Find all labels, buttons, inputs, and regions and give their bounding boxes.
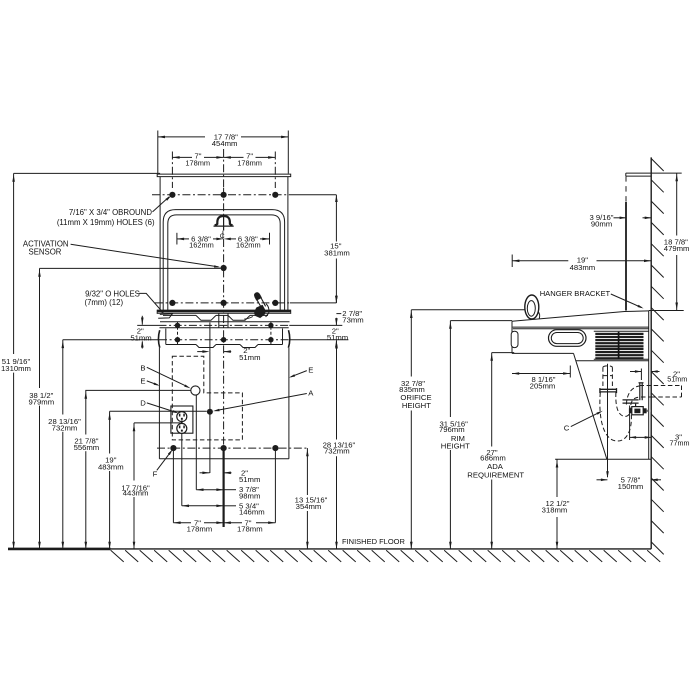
dim line 38 1/2 upper [39,268,41,388]
cabinet left bulge [158,330,159,348]
arrow 27 ADA bottom [490,542,493,549]
svg-text:51mm: 51mm [327,333,348,342]
left 2in lower seg [141,342,143,349]
arrow 8 1/16 r [563,372,570,375]
arrow 28 13/16 bottom [62,542,65,549]
hanger leader [611,294,642,308]
dim 13 15/16 lower [306,511,308,549]
arrow 31 5/16 top [449,322,452,329]
dim line 7in right a [224,156,244,158]
hole 325 right [268,323,273,328]
valve stem [635,404,637,407]
svg-text:205mm: 205mm [530,381,556,390]
obround leader [153,197,170,212]
ext bottom-left hole down [172,448,174,523]
dim line 38 1/2 lower [39,406,41,549]
cabinet bottom edge [159,458,289,460]
dim 12 1/2 upper [556,459,558,497]
arrow 12 1/2 bottom [556,542,559,549]
dim line 15 upper [335,195,337,242]
arrow 5 3/4 l [182,505,189,508]
short centerline 271 [270,322,272,344]
obround hole top-right [272,192,278,198]
dim line 17 7/8 left segment [158,136,205,138]
orifice height line [411,309,525,311]
svg-text:686mm: 686mm [480,453,506,462]
svg-text:479mm: 479mm [664,244,690,253]
dim line 15 lower [335,259,337,303]
cabinet right edge [288,348,290,459]
dim 18 7/8 lower [676,255,678,311]
valve wing left [629,408,632,413]
arrow 6 3/8 right [262,238,269,241]
svg-text:98mm: 98mm [239,491,260,500]
dim 28 13/16 r lower [336,456,338,549]
svg-text:979mm: 979mm [28,397,54,406]
ext 19in [511,255,513,268]
arrow 17 7/16 top [133,424,136,431]
dim 31 5/16 upper [449,321,451,417]
side bottom diagonal [574,353,607,459]
drain line upper [209,323,211,352]
slip nut left [599,388,601,393]
basin detail left [158,314,172,319]
arrow 17 7/8 right [281,136,288,139]
svg-text:90mm: 90mm [591,219,612,228]
dim line 21 7/8 upper [85,390,87,434]
arrow 7in center left [216,156,223,159]
under-hood line [513,326,649,328]
dim 3 7/8 tail [224,489,236,491]
arrow 5 7/8 r [651,479,658,482]
dim 27 ADA upper [491,353,493,447]
leader A [216,394,307,411]
obround hole top-center [221,192,227,198]
rim line ext left [137,324,158,326]
activation sensor dot [221,265,227,271]
connector 19 to node A [110,410,207,412]
arrow 7b far left [173,521,180,524]
sensor leader arrow [214,265,221,267]
arrow 3in r [645,436,652,439]
bottom connector line [555,458,651,460]
arrow 19in left [512,260,519,263]
arrow 13 15/16 bottom [306,542,309,549]
cabinet apron c [258,344,283,346]
left 2in arrow down [141,318,144,325]
arrow 38 1/2 bottom [38,542,41,549]
tailpiece top cap [603,366,613,367]
arrow 3 9/16 right [645,217,652,220]
svg-text:162mm: 162mm [189,241,214,250]
dim 6 3/8 r b [260,238,270,240]
row 340 ext left [63,339,159,341]
dim 2 bottom left tail [200,472,210,474]
arrow leader F [168,449,173,455]
upper 2in right arrow [224,350,231,353]
svg-text:51mm: 51mm [239,353,260,362]
side recess outer [549,330,587,347]
svg-text:483mm: 483mm [98,463,124,472]
connector 21 7/8 to circle B [85,389,190,391]
circle B [191,386,200,395]
arrow 27 ADA top [490,354,493,361]
svg-text:443mm: 443mm [123,489,149,498]
node A dot [207,409,213,415]
basin rim top [157,310,291,313]
obround leader arrow [166,196,172,201]
ext 2in trap [640,369,642,381]
dim line 19 lower [109,471,111,549]
stub cap [639,382,644,384]
grille top body line [594,330,649,332]
ada line [492,352,515,354]
dim line 28 13/16 upper [62,340,64,415]
left 2in upper seg [141,316,143,325]
outlet circle [177,412,187,422]
front detail [511,331,518,347]
upper 2in left tail [197,351,204,353]
bubbler base curve [538,312,540,319]
ext 3in [629,406,631,441]
plate left edge bold (hanger bar) [625,202,627,311]
arrow 19in right [644,260,651,263]
bubbler dome [215,216,233,225]
ext 8 1/16 [569,366,571,378]
svg-text:162mm: 162mm [236,241,261,250]
svg-text:FINISHED FLOOR: FINISHED FLOOR [342,537,406,546]
slip nut bottom [600,391,617,393]
arrow 38 1/2 top [38,270,41,277]
basin notch right [228,315,250,320]
wall hatching [651,159,664,172]
basin rim lower line [158,312,291,314]
arrow 17 7/16 bottom [133,542,136,549]
cabinet left edge [158,348,160,459]
arrow 5 3/4 r [216,505,223,508]
svg-text:150mm: 150mm [618,482,644,491]
arrow 8 1/16 l [512,372,519,375]
arrow 15 bottom [335,296,338,303]
arrow 13 15/16 top [306,449,309,456]
waste out top [640,385,682,387]
arrow 18 7/8 top [675,174,678,181]
left 2in arrow up [141,340,144,347]
dim 5 3/4 tail [224,505,236,507]
tailpiece joint [603,375,613,377]
apron notch left [196,345,216,348]
svg-text:HEIGHT: HEIGHT [441,441,470,450]
ext 6 3/8 right [269,233,271,245]
dim 2-7/8 upper seg [335,296,337,303]
dim 3 9/16 right seg [643,217,652,219]
arrow down at rim line right [335,318,338,325]
trap inner curve [616,392,631,416]
slip nut right [616,388,618,393]
svg-text:51mm: 51mm [239,475,260,484]
dim 12 1/2 lower [556,517,558,549]
dim 2 bottom right tail [224,472,232,474]
svg-text:796mm: 796mm [439,425,465,434]
arrow 15 top [335,195,338,202]
arrow 6 3/8 left [177,238,184,241]
svg-text:7/16" X 3/4" OBROUND: 7/16" X 3/4" OBROUND [69,208,152,217]
dim 32 7/8 lower [410,411,412,549]
arrow leader E right [289,374,295,377]
tailpiece right [611,367,613,389]
hole row centerline mid [155,302,290,304]
grille bottom line [594,358,649,360]
arrow 2in trap r [651,370,658,373]
dim 31 5/16 lower [449,450,451,549]
center bold line below cabinet [223,448,225,527]
plate top line2 [626,175,651,177]
arrow 3 7/8 r [216,488,223,491]
dim line 7in left b [204,156,224,158]
dim line 17 7/16 upper [133,423,135,481]
arrow 32 7/8 bottom [410,542,413,549]
hole row solid ext top [290,194,336,196]
arrow 32 7/8 top [410,311,413,318]
drain line lower [209,352,211,473]
outlet slots [179,426,181,429]
hole bottom-right [272,445,278,451]
hole centerline ext right [274,152,276,189]
arrow 12 1/2 top [556,460,559,467]
ext from outlet down [181,434,183,506]
svg-text:354mm: 354mm [296,502,322,511]
dim 7b l a [173,522,191,524]
svg-text:(7mm) (12): (7mm) (12) [85,298,124,307]
panel centerline top [223,149,225,188]
svg-text:483mm: 483mm [570,263,596,272]
leader D [147,403,176,413]
stub pipe left [639,383,641,400]
union bar top [623,399,639,401]
arrow 2in trap l [635,370,642,373]
panel opening inner [168,215,280,311]
dim 5 7/8 right tail [651,479,661,481]
rim height line [450,320,512,322]
hole 340 center [221,337,226,342]
dim 5 3/4 line [182,505,224,507]
hood slope [512,311,649,321]
outlet slots [179,414,181,417]
hole bottom-center [221,445,227,451]
arrow 3 7/8 l [196,488,203,491]
arrow 2 bottom r [224,472,231,475]
arrow 7in far left [172,156,179,159]
9/32 leader arrow [159,309,165,314]
arrow 17 7/8 left [158,136,165,139]
dim 19in right seg [597,260,652,262]
basin inner ledge a [163,314,196,316]
outlet circle [177,423,187,433]
apron notch right [240,345,258,348]
hole 340 right [268,337,273,342]
rim line ext right [289,324,342,326]
svg-text:318mm: 318mm [542,505,568,514]
svg-text:1310mm: 1310mm [1,364,31,373]
dim 7b r a [224,522,242,524]
trap outer curve [600,392,632,441]
dim 32 7/8 upper [410,310,412,377]
dim line 7in right b [256,156,276,158]
centerline symbol bar [222,231,224,240]
arrow leader D [173,410,179,413]
plate left edge dashed upper [625,176,627,202]
arrow 51 9/16 bottom [12,542,15,549]
side bottom front [512,352,574,354]
bubbler base plate [214,225,234,227]
arrow 7b far right [268,521,275,524]
connector 38 1/2 to sensor [40,267,221,269]
valve wing right [643,408,646,413]
row 340 centerline [159,339,289,341]
dim 6 3/8 r a [228,238,236,240]
basin rim right end [290,310,292,314]
svg-text:51mm: 51mm [130,334,151,343]
waste vertical line [607,364,609,477]
outlet ground [181,430,183,432]
push handle shaft right [261,298,266,307]
dim 2in trap right [651,371,659,373]
arrow 28 13/16 top [62,341,65,348]
svg-text:(11mm X 19mm) HOLES (6): (11mm X 19mm) HOLES (6) [57,218,155,227]
plate top left end [625,173,627,176]
row 325 centerline [159,324,290,326]
push handle outline arc [266,304,269,317]
arrow 7in center right [224,156,231,159]
valve to wall dashes [647,410,651,412]
elbow inner curve [631,397,641,405]
side front face [511,321,513,353]
svg-text:732mm: 732mm [52,423,78,432]
svg-text:F: F [153,470,158,479]
dim 2 right seg [335,341,337,348]
basin bottom line [160,321,290,323]
dim line 51 9/16 lower [13,373,15,549]
svg-text:A: A [308,389,314,398]
outlet center tab [181,421,183,424]
ext 6 3/8 left [176,233,178,245]
arrow 21 7/8 bottom [85,542,88,549]
dim 5 7/8 left tail [597,479,608,481]
panel left edge [159,177,161,311]
arrow 3in l [630,436,637,439]
receptacle box [171,406,193,433]
panel right edge [287,177,289,311]
tick to 2 7/8 text [336,313,341,315]
hole centerline ext left [171,152,173,189]
obround hole top-left [169,192,175,198]
cabinet inner right [282,329,284,345]
extension line 17 7/8 left [157,131,159,174]
waste out cap [681,386,683,398]
arrow 28 13/16 r bottom [335,542,338,549]
dim 7b l b [204,522,224,524]
dim 13 15/16 upper [306,448,308,495]
push handle base [254,305,265,318]
hole row centerline top [152,194,290,196]
side back edge [648,311,650,459]
finished floor line bold [8,548,111,551]
hole row solid ext mid [290,302,336,304]
short centerline 177 [177,322,179,344]
dim line 17 7/16 lower [133,497,135,549]
arrow 19 bottom [108,542,111,549]
leader B [147,367,187,386]
wall line [650,157,652,549]
svg-text:77mm: 77mm [670,439,690,448]
svg-text:556mm: 556mm [74,443,100,452]
waste out bottom b [651,396,681,398]
stub pipe right [641,383,643,400]
push handle lever [254,292,261,300]
bubbler side outer [525,295,539,319]
arrow 7b cl r [224,521,231,524]
bubbler side inner [527,301,535,317]
arrow 51 9/16 top [12,175,15,182]
dim line 21 7/8 lower [85,451,87,549]
arrow 18 7/8 bottom [675,303,678,310]
svg-text:E: E [308,366,313,375]
cabinet right bulge [288,330,289,348]
dim 8 1/16 line [512,373,570,375]
extension line 17 7/8 right [287,131,289,174]
waste arrow down [606,471,609,478]
arrow up at lower line right [335,340,338,347]
hole 325 left [175,323,180,328]
arrow leader E left [154,383,160,386]
waste out bottom a [641,396,651,398]
svg-text:178mm: 178mm [185,158,210,167]
dim 6 3/8 l a [177,238,189,240]
connector 18 7/8 top [651,172,682,174]
leader E right [291,371,307,377]
sensor leader [71,244,219,267]
hole 340 left [175,337,180,342]
arrow 21 7/8 top [85,392,88,399]
cabinet inner left [165,329,167,345]
ext from circle B down [195,395,197,489]
obround hole mid-center [221,300,227,306]
cabinet apron a [166,344,196,346]
connector 51 9/16 to panel top [14,172,161,174]
body top line [513,328,649,330]
hanger leader arrow [638,305,644,309]
svg-text:178mm: 178mm [187,524,213,533]
basin inner ledge b [216,314,228,316]
obround hole mid-right [272,300,278,306]
plate top line1 [626,172,651,174]
basin notch left [196,315,216,320]
dim 19in left seg [512,260,568,262]
upper 2in left arrow [202,350,209,353]
9/32 leader [139,293,163,312]
upper 2in right tail [224,351,232,353]
dim 2in trap left [630,371,641,373]
body rear bottom line [576,360,649,362]
svg-text:146mm: 146mm [239,508,265,517]
row 340 ext right [289,339,348,341]
connector 18 7/8 bottom [649,310,684,312]
slip nut top [600,388,617,390]
arrow 5 7/8 l [601,479,608,482]
side recess inner [551,333,583,344]
centerline through dome upper [223,188,225,216]
svg-text:D: D [140,398,146,407]
